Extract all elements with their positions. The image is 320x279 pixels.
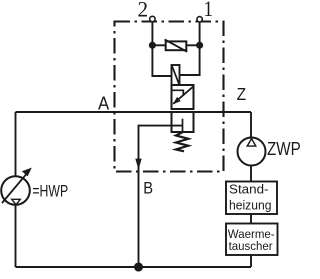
pump HWP variable arrow xyxy=(2,170,30,203)
spring xyxy=(176,132,188,151)
port 1 circle xyxy=(197,17,202,22)
valve inner stub lower xyxy=(182,119,184,132)
phantom enclosure (dash-dot frame) xyxy=(115,22,224,172)
HWP arrowhead xyxy=(22,168,32,177)
pump HWP triangle xyxy=(12,199,21,204)
arrow B xyxy=(135,159,141,170)
wire restrictor left xyxy=(152,44,165,46)
wire Z down to ZWP xyxy=(250,112,252,137)
wire HWP down xyxy=(15,205,17,267)
port 2 circle xyxy=(150,16,155,21)
restrictor (orifice with diagonal) xyxy=(166,41,187,50)
svg-text:heizung: heizung xyxy=(229,198,272,212)
svg-text:B: B xyxy=(143,179,153,198)
svg-text:Z: Z xyxy=(237,84,247,104)
svg-text:Stand-: Stand- xyxy=(229,183,269,197)
svg-text:=HWP: =HWP xyxy=(32,182,68,201)
pump HWP circle xyxy=(1,176,30,205)
solenoid coil xyxy=(172,65,180,85)
box Standheizung xyxy=(226,182,277,215)
wire left column to solenoid xyxy=(152,45,171,76)
wire restrictor right xyxy=(186,44,199,46)
flow arrowhead xyxy=(173,97,181,104)
wire port1 down xyxy=(199,21,201,45)
pump ZWP circle xyxy=(238,138,266,166)
wire A left column xyxy=(15,112,17,176)
wire B from valve xyxy=(139,126,183,267)
junction dot right xyxy=(197,43,202,48)
pump ZWP triangle xyxy=(247,139,256,147)
junction dot left xyxy=(150,43,155,48)
bottom return wire xyxy=(16,266,252,268)
wire Waermetauscher down xyxy=(250,255,252,267)
wire right column to solenoid xyxy=(180,45,200,75)
svg-text:tauscher: tauscher xyxy=(229,239,273,253)
box Waermetauscher xyxy=(226,224,278,256)
svg-text:ZWP: ZWP xyxy=(267,139,301,159)
valve flow path diagonal xyxy=(173,87,193,104)
wire ZWP to Standheizung xyxy=(250,166,252,182)
wire between boxes xyxy=(250,214,252,224)
line A-Z xyxy=(16,111,252,113)
svg-text:A: A xyxy=(98,92,110,113)
svg-text:2: 2 xyxy=(138,0,149,21)
valve lower position square xyxy=(172,112,194,132)
wire port2 down xyxy=(151,21,153,45)
valve inner port line upper xyxy=(172,90,184,95)
junction dot B bottom xyxy=(135,263,142,270)
valve upper position square xyxy=(172,85,194,109)
svg-text:1: 1 xyxy=(204,0,214,21)
